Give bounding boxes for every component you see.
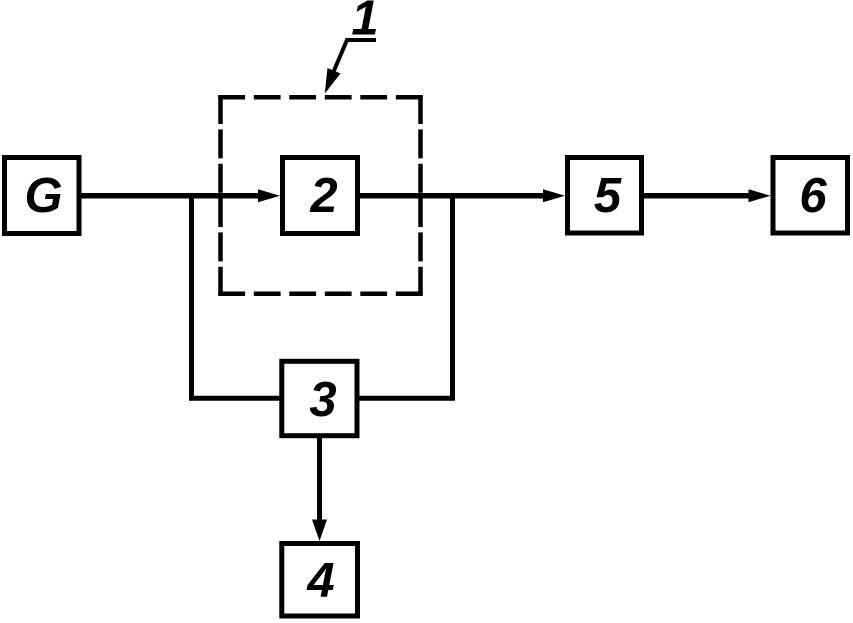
- block 2: [283, 158, 358, 234]
- left branch vertical wire: [189, 196, 194, 399]
- arrowhead into block 4: [312, 520, 327, 542]
- arrowhead into block 2: [258, 189, 280, 202]
- right branch vertical wire: [450, 196, 455, 399]
- dashed enclosure 1: [218, 95, 422, 296]
- wire block 2 to block 5: [360, 193, 545, 199]
- arrowhead into block 6: [749, 189, 771, 202]
- wire block 5 to block 6: [644, 193, 750, 199]
- left branch horizontal wire into block 3: [189, 396, 281, 401]
- leader line of label 1: [330, 40, 376, 80]
- svg-text:3: 3: [309, 373, 336, 427]
- label 1: [351, 0, 378, 46]
- svg-text:2: 2: [309, 169, 337, 223]
- svg-text:6: 6: [799, 169, 827, 223]
- svg-text:5: 5: [594, 169, 622, 223]
- svg-text:4: 4: [306, 554, 334, 608]
- svg-text:G: G: [24, 169, 62, 223]
- block G: [5, 158, 80, 234]
- arrowhead of leader into enclosure 1: [325, 68, 341, 94]
- block 6: [773, 158, 848, 234]
- block 5: [568, 158, 642, 234]
- wire block 3 to block 4: [317, 436, 322, 522]
- arrowhead into block 5: [543, 189, 565, 202]
- wire G to block 2: [81, 193, 260, 199]
- wire block 3 to right branch vertical: [358, 396, 455, 401]
- block 4: [282, 544, 358, 617]
- block 3: [282, 361, 357, 435]
